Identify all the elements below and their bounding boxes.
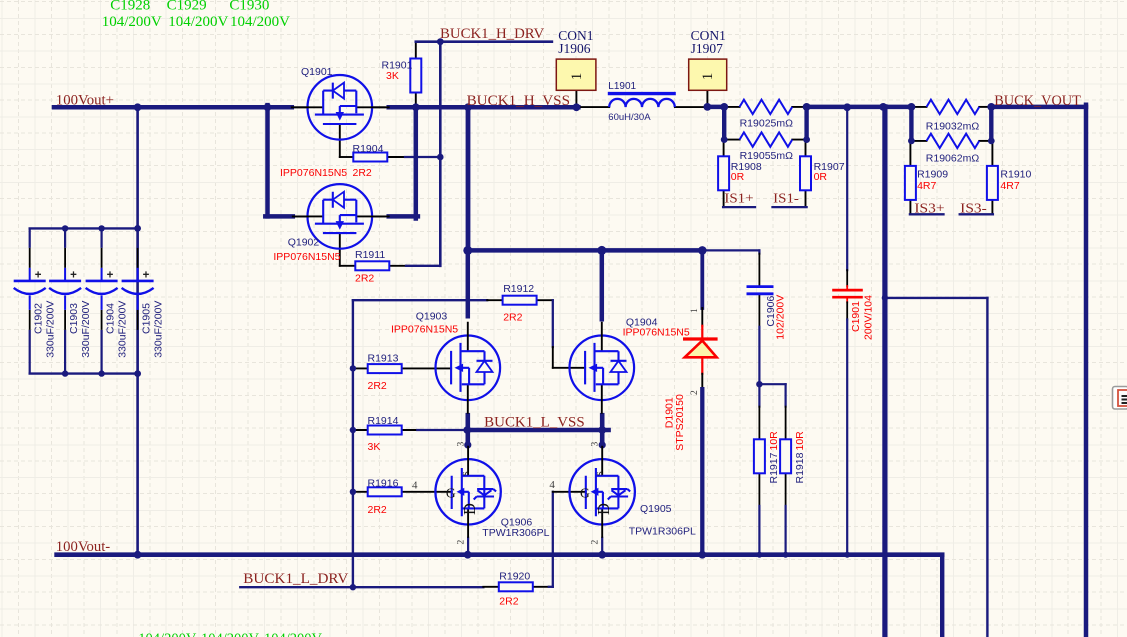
svg-text:IPP076N15N5: IPP076N15N5: [623, 327, 690, 339]
svg-text:2R2: 2R2: [503, 312, 522, 324]
svg-text:60uH/30A: 60uH/30A: [608, 112, 651, 123]
junction at 468,445: [464, 441, 471, 448]
wire C1901 leads: [846, 299, 848, 303]
capacitor C1906: [747, 287, 774, 294]
pin D1901 leads: [701, 308, 703, 326]
wire net BUCK1_L_DRV: [601, 538, 603, 555]
svg-text:3K: 3K: [368, 441, 381, 453]
svg-text:R1918: R1918: [794, 452, 806, 483]
resistor R1906: [927, 134, 980, 148]
wire shunt IS3 stubs: [989, 107, 993, 141]
wire R1912 branch to Q1904 gate: [552, 300, 554, 347]
pin R1914 leads: [353, 429, 369, 431]
svg-text:200V/104: 200V/104: [863, 295, 875, 340]
svg-text:Q1903: Q1903: [416, 311, 448, 323]
svg-text:2R2: 2R2: [355, 272, 374, 284]
svg-text:C1904: C1904: [105, 303, 117, 334]
junction at 807,140: [803, 136, 810, 143]
wire bus to second shunt: [807, 105, 912, 110]
wire net BUCK_VOUT bus: [991, 105, 1086, 110]
svg-text:R19062mΩ: R19062mΩ: [926, 153, 980, 165]
svg-text:100Vout-: 100Vout-: [56, 539, 111, 555]
svg-text:C1902: C1902: [33, 303, 45, 334]
svg-text:2R2: 2R2: [499, 596, 518, 608]
junction at 602,250: [597, 246, 606, 255]
junction at 65,374: [62, 370, 68, 376]
svg-text:BUCK1_H_DRV: BUCK1_H_DRV: [440, 26, 545, 42]
junction at 268,107: [264, 103, 272, 111]
wire C1906 to R1917/R1918: [758, 384, 760, 406]
wire Q1902 source branch: [414, 107, 419, 218]
transistor Q1902: [294, 184, 386, 249]
junction at 786,555: [783, 552, 789, 558]
pin C1906 to R1917/R1918: [785, 407, 787, 440]
wire net 100Vout- bus: [57, 552, 943, 557]
wire Q1902 gate / R1911 leads: [406, 265, 440, 267]
svg-text:IS3+: IS3+: [914, 201, 944, 216]
wire vertical rail x885: [882, 107, 887, 637]
pin R1908/R1907 legs: [723, 190, 725, 207]
svg-text:R1914: R1914: [368, 415, 399, 427]
wire cap bank rails: [30, 227, 138, 229]
svg-text:3: 3: [591, 442, 601, 447]
junction at 468,555: [464, 551, 472, 559]
junction at 759,555: [756, 552, 762, 558]
junction at 991,141: [988, 138, 995, 145]
svg-text:R1920: R1920: [499, 570, 530, 582]
wire C1901 leads: [846, 320, 848, 555]
svg-text:R1910: R1910: [1000, 168, 1031, 180]
wire net BUCK1_H_DRV: [439, 42, 442, 266]
svg-text:BUCK_VOUT: BUCK_VOUT: [994, 93, 1081, 109]
junction at 847,555: [844, 552, 850, 558]
junction at 138,228: [134, 225, 141, 232]
wire phase node vertical: [466, 107, 471, 250]
svg-text:J1907: J1907: [691, 41, 724, 56]
svg-text:TPW1R306PL: TPW1R306PL: [482, 527, 549, 539]
svg-text:4R7: 4R7: [1000, 180, 1019, 192]
svg-text:4R7: 4R7: [917, 180, 936, 192]
pin C1906 to R1917/R1918: [785, 473, 787, 506]
wire source pin stubs at VSS bus: [465, 415, 470, 445]
svg-text:R19032mΩ: R19032mΩ: [926, 121, 980, 133]
svg-text:IS1+: IS1+: [724, 192, 753, 207]
pin R1902/R1905 leads: [724, 139, 739, 141]
pin connector pins: [706, 90, 708, 107]
svg-text:IPP076N15N5: IPP076N15N5: [280, 167, 347, 179]
svg-text:IS1-: IS1-: [773, 192, 799, 207]
junction at 602,445: [599, 441, 606, 448]
junction at 353,368: [350, 365, 356, 371]
svg-text:G: G: [580, 485, 590, 500]
junction at 724,107: [720, 103, 728, 111]
wire Q1902 drain branch: [265, 214, 293, 219]
diode D1901: [683, 339, 718, 357]
svg-text:104/200V: 104/200V: [201, 631, 260, 637]
svg-text:330uF/200V: 330uF/200V: [152, 301, 164, 358]
wire wire to C1906: [758, 250, 760, 253]
svg-text:104/200V: 104/200V: [138, 631, 197, 637]
wire cap bank vertical: [136, 107, 139, 554]
svg-text:TPW1R306PL: TPW1R306PL: [629, 526, 696, 538]
pin R1901 pins: [415, 42, 417, 59]
svg-text:R1909: R1909: [917, 168, 948, 180]
junction at 102,228: [98, 225, 104, 231]
pin R1908/R1907 legs: [723, 140, 725, 157]
pin R1902/R1905 leads: [792, 139, 806, 141]
resistor R1920: [499, 582, 533, 591]
pin R1916 leads: [353, 491, 369, 493]
pin R1912 branch to Q1904 gate: [553, 367, 585, 369]
wire net BUCK1_L_DRV: [549, 586, 553, 588]
svg-text:3: 3: [457, 442, 467, 447]
svg-text:3K: 3K: [386, 70, 399, 82]
pin R1908/R1907 legs: [805, 190, 807, 207]
svg-text:BUCK1_H_VSS: BUCK1_H_VSS: [467, 93, 570, 109]
junction at 353,492: [350, 489, 356, 495]
capacitor C1903: [49, 228, 81, 374]
resistor R1901: [410, 59, 421, 93]
junction at 911,141: [908, 138, 915, 145]
svg-text:1: 1: [690, 308, 700, 313]
pin Q1901/Q1902 pins: [372, 106, 389, 108]
junction at 883,107: [879, 103, 887, 111]
pin Q1902 gate / R1911 leads: [340, 265, 355, 267]
junction at 911,107: [908, 103, 916, 111]
pin R1902/R1905 leads: [792, 106, 806, 108]
junction at 707,107: [704, 103, 712, 111]
svg-text:2R2: 2R2: [368, 380, 387, 392]
wire D1901 leads: [700, 250, 704, 308]
capacitor C1905: [122, 228, 154, 374]
pin R1914 leads: [401, 429, 417, 431]
svg-text:330uF/200V: 330uF/200V: [116, 301, 128, 358]
connector J1906: [556, 59, 596, 90]
svg-text:R1904: R1904: [353, 143, 384, 155]
capacitor C1904: [86, 228, 118, 374]
resistor R1904: [353, 153, 387, 162]
svg-text:D: D: [460, 503, 479, 515]
svg-text:104/200V: 104/200V: [168, 14, 228, 30]
wire C1906 to R1917/R1918: [758, 506, 760, 555]
wire Q1902 drain branch: [265, 105, 270, 216]
svg-text:R1916: R1916: [368, 478, 399, 490]
wire D1901 leads: [701, 326, 703, 338]
pin C1906 to R1917/R1918: [758, 294, 760, 327]
svg-text:R19055mΩ: R19055mΩ: [740, 150, 794, 162]
pin Q1901 gate / R1904 leads: [389, 156, 405, 158]
pin net BUCK1_L_DRV: [532, 586, 548, 588]
svg-text:Q1902: Q1902: [288, 237, 320, 249]
svg-text:2: 2: [591, 540, 601, 545]
pin net BUCK1_L_DRV: [483, 586, 499, 588]
wire net IS1+/IS1- stubs: [723, 206, 755, 208]
resistor R1913: [368, 364, 402, 373]
svg-text:104/200V: 104/200V: [264, 631, 323, 637]
svg-text:2: 2: [690, 390, 700, 395]
wire net BUCK1_H_VSS bus: [389, 105, 579, 110]
svg-text:2: 2: [457, 540, 467, 545]
wire Q1901 gate / R1904 leads: [405, 156, 440, 158]
svg-text:102/200V: 102/200V: [775, 295, 787, 340]
svg-text:330uF/200V: 330uF/200V: [80, 301, 92, 358]
wire C1901 leads: [846, 286, 848, 289]
wire net BUCK1_L_DRV: [467, 538, 469, 555]
junction at 65,228: [62, 225, 68, 231]
svg-text:Q1905: Q1905: [640, 503, 672, 515]
pin R1913 leads: [401, 367, 451, 369]
pin R1912 branch to Q1904 gate: [487, 299, 503, 301]
resistor R1912: [503, 296, 537, 305]
wire net BUCK1_L_DRV: [240, 586, 483, 588]
svg-text:10R: 10R: [794, 431, 806, 451]
junction at 440,42: [437, 38, 444, 45]
wire net 100Vout- bus: [940, 555, 944, 637]
wire net BUCK1_L_DRV: [552, 492, 554, 587]
pin Q1901/Q1902 pins: [372, 215, 389, 217]
pin C1901 leads: [846, 270, 848, 286]
svg-text:S: S: [594, 471, 604, 476]
wire C1906 to R1917/R1918: [759, 383, 785, 385]
pin R1901 pins: [415, 92, 417, 107]
wire net IS3+/IS3- stubs: [910, 213, 944, 215]
junction at 847,107: [843, 103, 851, 111]
svg-text:104/200V: 104/200V: [102, 14, 162, 30]
wire shunt IS3 stubs: [909, 107, 913, 141]
resistor R1914: [368, 426, 402, 435]
cursor icon at right edge: [1113, 387, 1127, 410]
svg-text:STPS20150: STPS20150: [674, 394, 686, 451]
pin R1909/R1910 legs: [991, 199, 993, 214]
pin R1903/R1906 leads: [979, 106, 991, 108]
svg-text:C1928: C1928: [110, 0, 150, 14]
junction at 138,107: [134, 103, 142, 111]
wire Q1903/Q1904 drain stubs: [466, 250, 471, 316]
pin R1903/R1906 leads: [979, 140, 991, 142]
junction at 885,298: [882, 295, 888, 301]
svg-text:0R: 0R: [731, 171, 745, 183]
wire D1901 leads: [700, 389, 704, 555]
pin R1909/R1910 legs: [991, 141, 993, 167]
junction at 440,157: [437, 154, 444, 161]
svg-text:J1906: J1906: [558, 41, 591, 56]
svg-text:IPP076N15N5: IPP076N15N5: [391, 324, 458, 336]
wire wire to C1906: [702, 249, 759, 251]
pin R1912 branch to Q1904 gate: [552, 347, 554, 368]
svg-text:L1901: L1901: [608, 81, 636, 92]
pin R1909/R1910 legs: [909, 141, 911, 167]
svg-text:BUCK1_L_VSS: BUCK1_L_VSS: [484, 415, 585, 431]
wire branch to lower right: [885, 297, 988, 299]
wire gate drive rail: [352, 300, 354, 587]
svg-text:100Vout+: 100Vout+: [56, 92, 114, 108]
svg-text:2R2: 2R2: [353, 167, 372, 179]
junction at 468,107: [464, 103, 472, 111]
svg-text:R1911: R1911: [355, 249, 385, 261]
transistor Q1901: [294, 75, 386, 140]
pin R1916 leads: [401, 491, 452, 493]
resistor R1909: [905, 166, 916, 200]
svg-text:R19025mΩ: R19025mΩ: [740, 117, 794, 129]
pin L1901 leads: [675, 106, 708, 108]
junction at 576,107: [573, 103, 581, 111]
svg-text:1: 1: [700, 73, 716, 81]
wire R1914 leads: [417, 429, 467, 431]
svg-text:10R: 10R: [768, 431, 780, 451]
wire net 100Vout+ bus: [54, 105, 292, 110]
svg-text:4: 4: [549, 479, 555, 491]
svg-text:330uF/200V: 330uF/200V: [45, 301, 57, 358]
wire C1901 leads: [846, 107, 848, 270]
pin D1901 leads: [701, 374, 703, 390]
junction at 467,430: [463, 426, 471, 434]
resistor R1908: [718, 156, 729, 190]
pin R1902/R1905 leads: [724, 106, 739, 108]
wire C1906 to R1917/R1918: [784, 506, 786, 555]
svg-text:0R: 0R: [814, 171, 828, 183]
transistor Q1905: [570, 446, 635, 538]
resistor R1916: [368, 487, 402, 496]
pin Q1902 gate / R1911 leads: [390, 265, 406, 267]
resistor R1902: [740, 100, 793, 114]
resistor R1905: [740, 132, 793, 146]
junction at 991,107: [987, 103, 995, 111]
wire Q1902 source branch: [389, 214, 418, 219]
pin R1909/R1910 legs: [909, 199, 911, 214]
wire shunt IS1 stubs: [804, 107, 808, 140]
pin R1912 branch to Q1904 gate: [536, 299, 553, 301]
resistor R1918: [780, 439, 791, 473]
wire net IS1+/IS1- stubs: [773, 206, 807, 208]
pin R1913 leads: [353, 367, 369, 369]
connector J1907: [689, 59, 727, 90]
transistor Q1906: [435, 446, 500, 538]
junction at 602,430: [598, 426, 606, 434]
svg-text:D: D: [594, 503, 613, 515]
capacitor C1902: [14, 228, 46, 374]
transistor Q1904: [570, 322, 635, 414]
wire D1901 leads: [701, 357, 703, 373]
wire source pin stubs at VSS bus: [600, 415, 605, 445]
wire C1906 to R1917/R1918: [758, 327, 760, 384]
wire shunt IS1 stubs: [722, 107, 726, 140]
wire cap bank rails: [30, 372, 138, 374]
svg-text:BUCK1_L_DRV: BUCK1_L_DRV: [243, 571, 349, 587]
transistor Q1903: [436, 322, 501, 414]
resistor R1907: [800, 156, 811, 190]
pin R1903/R1906 leads: [911, 140, 926, 142]
wire bus J1907 to shunt: [707, 105, 724, 110]
pin Q1901/Q1902 pins: [293, 215, 308, 217]
junction at 468,250: [463, 246, 472, 255]
pin L1901 leads: [578, 106, 609, 108]
junction at 702,555: [698, 551, 706, 559]
junction at 353,587: [350, 584, 356, 590]
svg-text:S: S: [460, 471, 470, 476]
pin wire to C1906: [758, 254, 760, 287]
junction at 602,555: [598, 551, 606, 559]
pin Q1901 gate / R1904 leads: [339, 124, 341, 157]
svg-text:C1929: C1929: [167, 0, 207, 14]
resistor R1910: [987, 166, 998, 200]
wire branch to lower right: [986, 298, 988, 637]
svg-text:C1901: C1901: [850, 301, 862, 332]
pin Q1902 gate / R1911 leads: [339, 233, 341, 265]
resistor R1911: [355, 261, 389, 270]
wire C1906 to R1917/R1918: [784, 384, 786, 406]
pin C1901 leads: [846, 302, 848, 319]
resistor R1917: [754, 439, 765, 473]
junction at 102,374: [98, 370, 104, 376]
svg-text:R1917: R1917: [768, 452, 780, 483]
pin connector pins: [575, 90, 577, 107]
pin Q1901/Q1902 pins: [292, 106, 308, 108]
inductor L1901: [608, 94, 676, 108]
capacitor C1901: [832, 290, 863, 297]
pin net BUCK1_L_DRV: [553, 491, 586, 493]
svg-text:R1912: R1912: [503, 283, 534, 295]
junction at 416,107: [412, 103, 420, 111]
wire net BUCK1_H_DRV: [416, 40, 552, 43]
svg-text:IS3-: IS3-: [960, 201, 987, 216]
pin R1903/R1906 leads: [911, 106, 926, 108]
junction at 138,555: [134, 551, 142, 559]
junction at 353,430: [350, 427, 356, 433]
svg-text:1: 1: [569, 73, 585, 81]
wire R1912 branch to Q1904 gate: [353, 299, 487, 301]
pin Q1901 gate / R1904 leads: [340, 156, 352, 158]
wire phase node bus: [468, 248, 703, 253]
svg-text:4: 4: [412, 480, 418, 492]
svg-text:2R2: 2R2: [368, 504, 387, 516]
junction at 724,140: [721, 136, 728, 143]
resistor R1903: [927, 100, 980, 114]
svg-text:C1905: C1905: [141, 303, 153, 334]
pin R1908/R1907 legs: [805, 140, 807, 157]
wire Q1903/Q1904 drain stubs: [600, 250, 605, 319]
junction at 702,250: [698, 246, 707, 255]
junction at 138,374: [134, 370, 141, 377]
wire net BUCK_VOUT bus: [1084, 105, 1089, 637]
svg-text:G: G: [446, 485, 456, 500]
junction at 759,384: [756, 381, 762, 387]
svg-text:104/200V: 104/200V: [230, 14, 290, 30]
junction at 807,107: [803, 103, 811, 111]
wire net BUCK1_L_VSS bus: [467, 428, 609, 433]
svg-text:IPP076N15N5: IPP076N15N5: [273, 251, 340, 263]
svg-text:Q1901: Q1901: [301, 66, 333, 78]
svg-text:C1930: C1930: [229, 0, 269, 14]
wire net IS3+/IS3- stubs: [960, 213, 993, 215]
svg-text:C1903: C1903: [68, 303, 80, 334]
pin C1906 to R1917/R1918: [758, 407, 760, 440]
pin C1906 to R1917/R1918: [758, 473, 760, 506]
svg-text:R1913: R1913: [368, 353, 399, 365]
